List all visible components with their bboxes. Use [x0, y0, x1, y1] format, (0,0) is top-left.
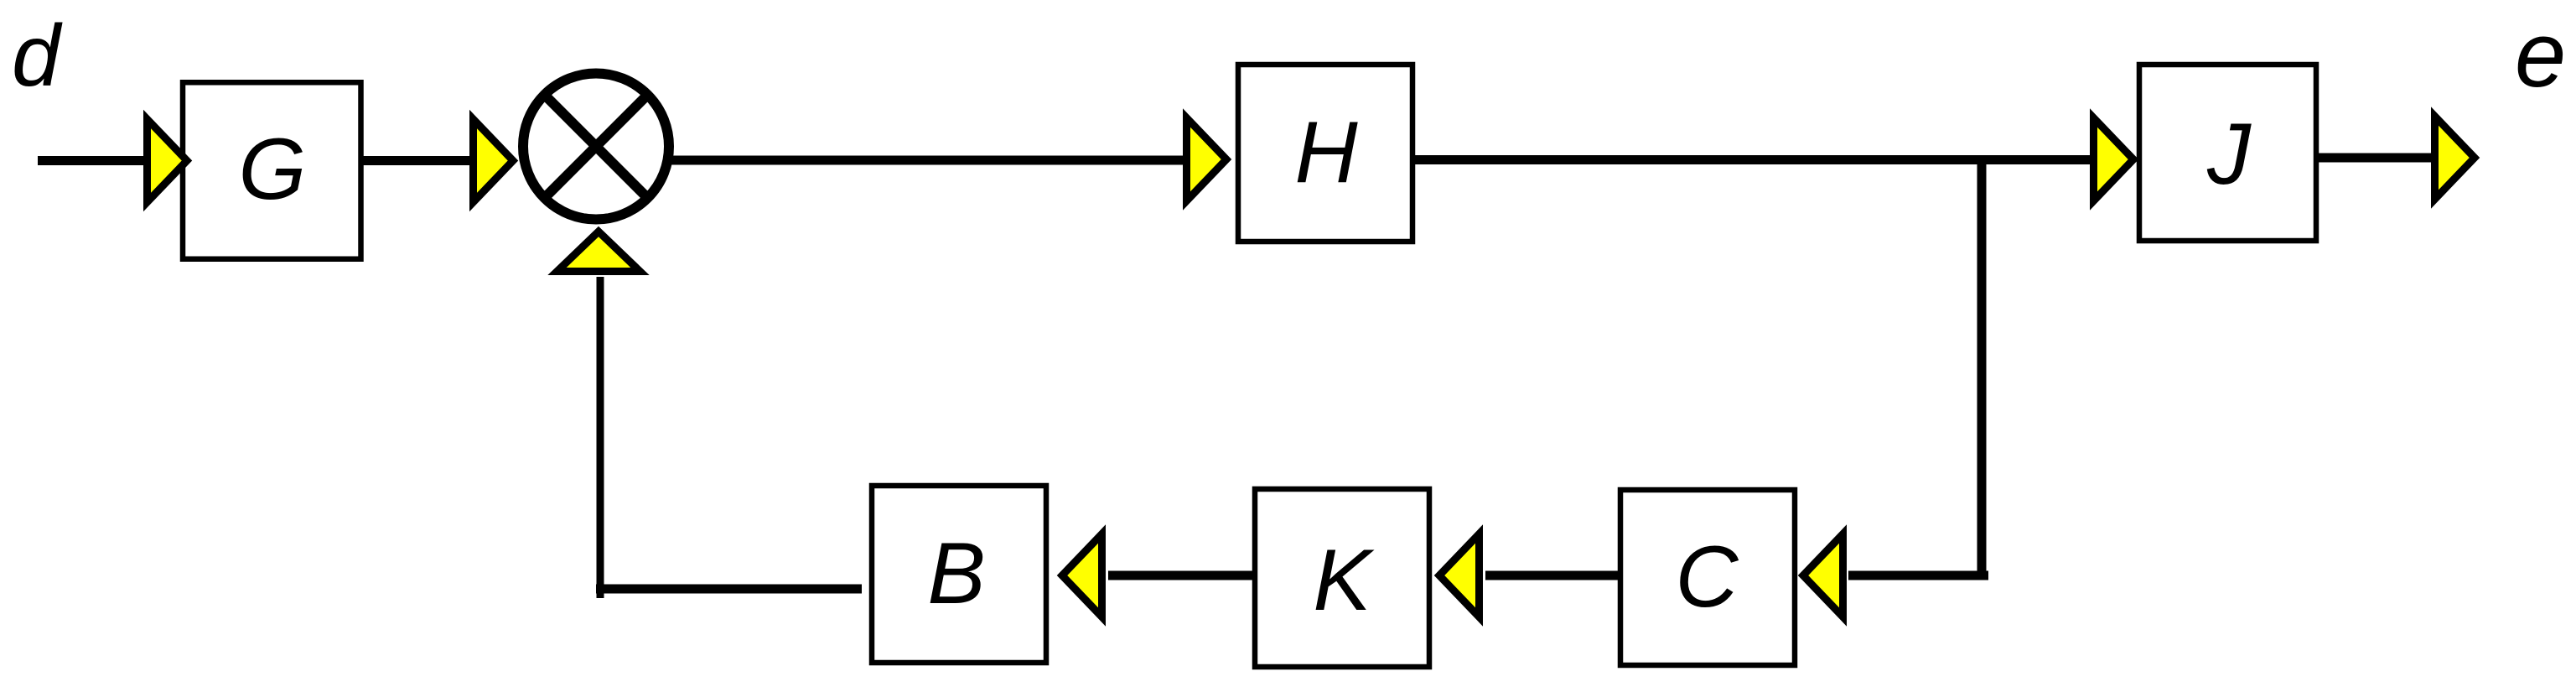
- svg-text:G: G: [239, 121, 307, 218]
- svg-text:d: d: [12, 8, 63, 105]
- svg-text:B: B: [927, 525, 985, 622]
- svg-text:H: H: [1294, 104, 1358, 201]
- svg-text:C: C: [1675, 528, 1739, 626]
- svg-text:e: e: [2515, 3, 2566, 107]
- svg-text:J: J: [2206, 106, 2252, 203]
- svg-text:K: K: [1313, 532, 1375, 629]
